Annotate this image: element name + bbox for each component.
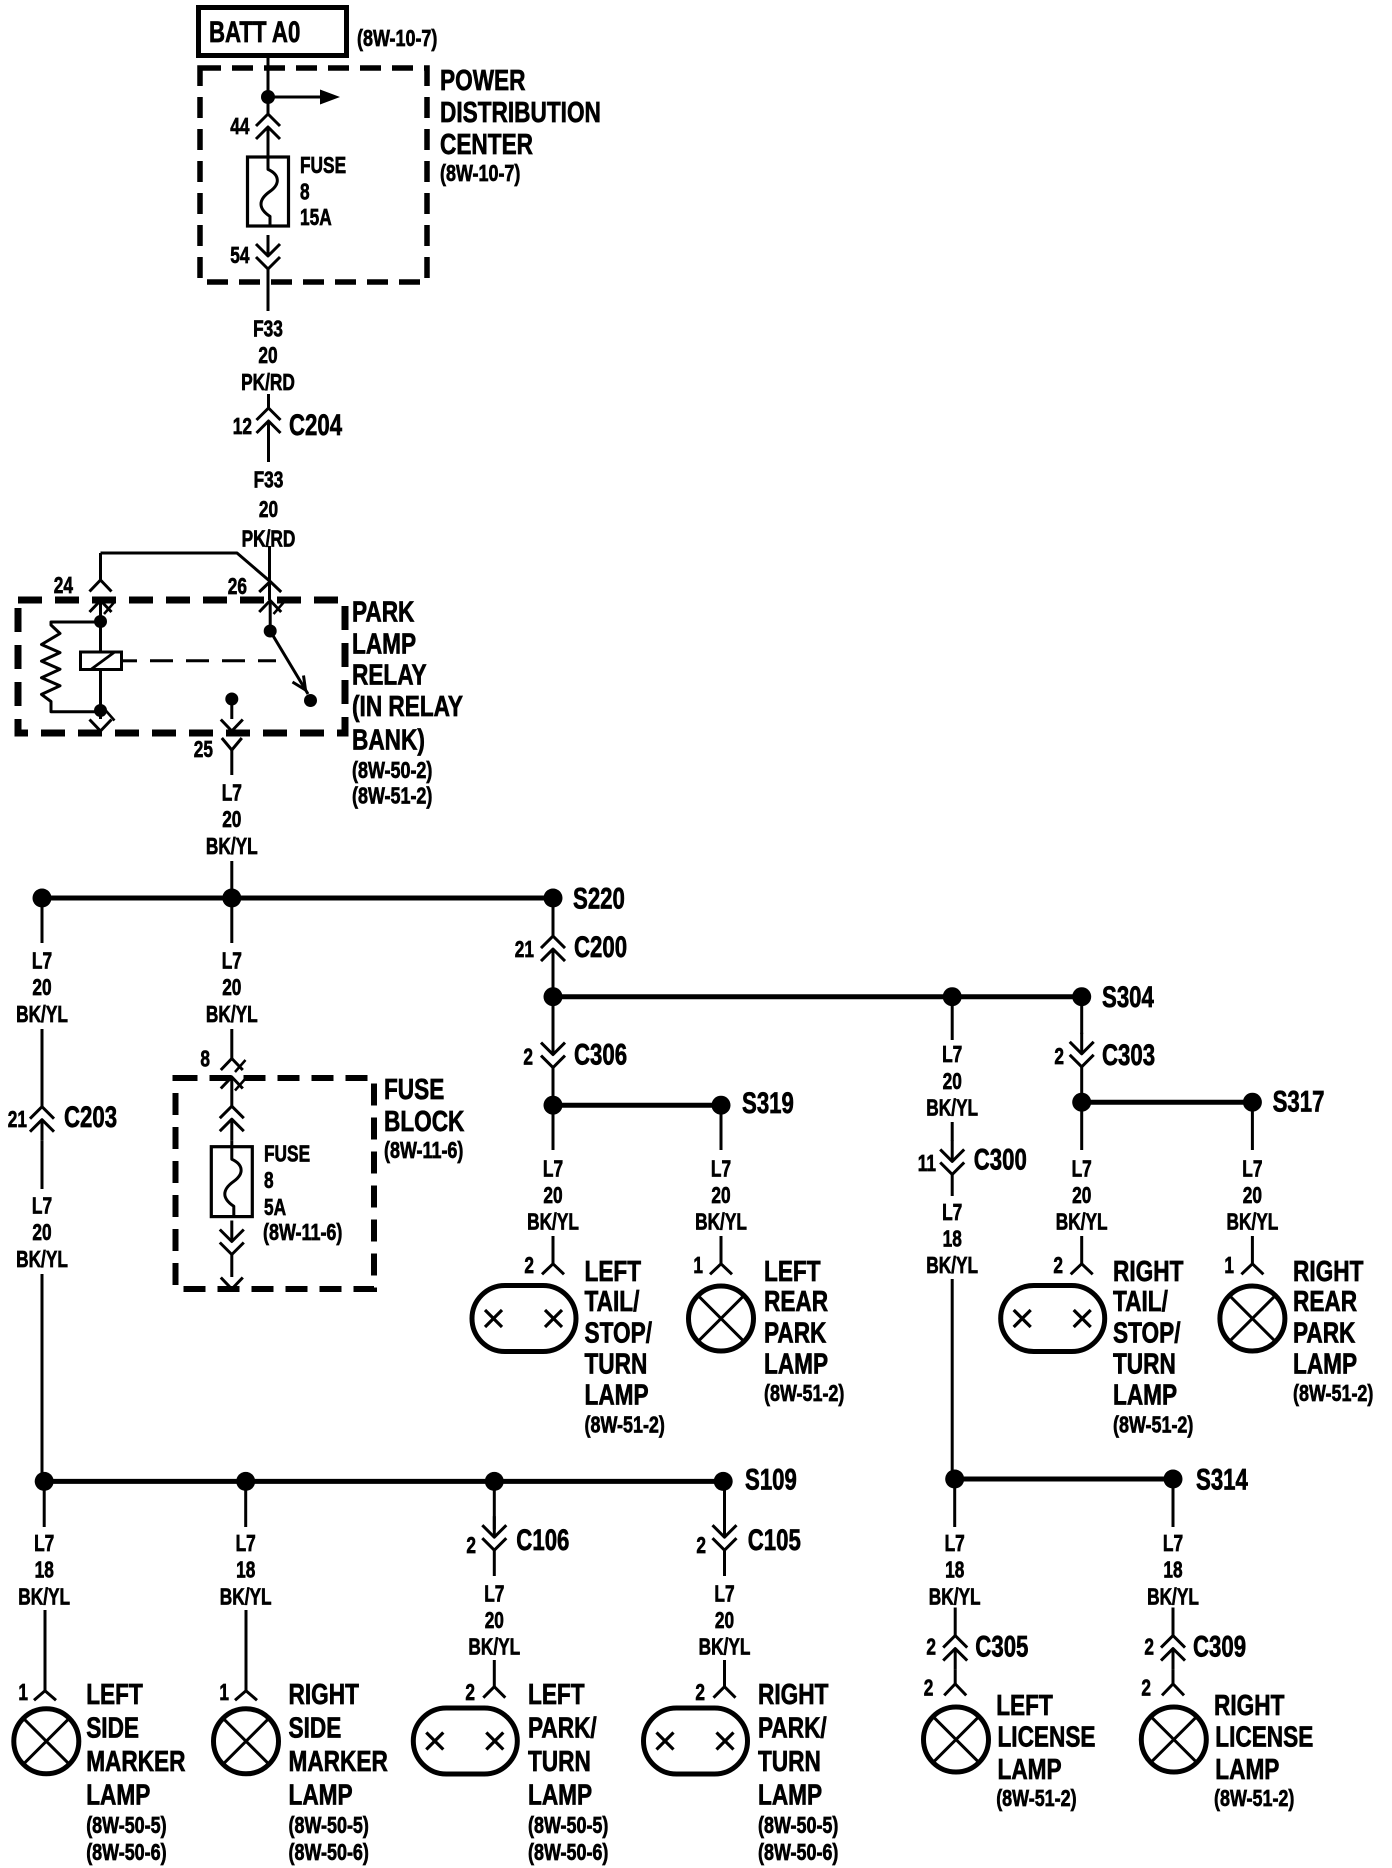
- svg-text:C200: C200: [574, 931, 627, 964]
- svg-text:POWER: POWER: [440, 65, 526, 97]
- svg-text:18: 18: [236, 1557, 255, 1583]
- svg-text:TURN: TURN: [585, 1349, 648, 1381]
- svg-text:20: 20: [1243, 1182, 1262, 1208]
- svg-text:1: 1: [18, 1679, 28, 1705]
- svg-text:(8W-10-7): (8W-10-7): [440, 160, 520, 186]
- svg-text:PARK: PARK: [352, 597, 414, 629]
- svg-text:BK/YL: BK/YL: [16, 1001, 68, 1027]
- svg-text:LAMP: LAMP: [758, 1779, 822, 1811]
- svg-text:FUSE: FUSE: [264, 1140, 310, 1166]
- wire below splice: [552, 1105, 555, 1150]
- svg-text:8: 8: [264, 1167, 274, 1193]
- pin 8 connector half: [221, 1059, 243, 1071]
- lamp RIGHT PARK/TURN: [644, 1708, 748, 1774]
- svg-text:STOP/: STOP/: [1113, 1318, 1181, 1350]
- svg-text:F33: F33: [254, 467, 284, 493]
- pin 8 male arrow inside fuse block: [221, 1077, 243, 1089]
- svg-text:44: 44: [230, 113, 249, 139]
- svg-text:BK/YL: BK/YL: [926, 1252, 978, 1278]
- svg-text:LEFT: LEFT: [86, 1679, 143, 1711]
- svg-text:FUSE: FUSE: [300, 152, 346, 178]
- svg-text:DISTRIBUTION: DISTRIBUTION: [440, 97, 601, 129]
- svg-text:S317: S317: [1273, 1086, 1325, 1119]
- relay shunt resistor: [42, 622, 101, 712]
- svg-text:L7: L7: [222, 780, 242, 806]
- svg-text:BLOCK: BLOCK: [384, 1106, 464, 1138]
- svg-text:TURN: TURN: [758, 1746, 821, 1778]
- svg-text:20: 20: [1072, 1182, 1091, 1208]
- wire below C204: [267, 442, 270, 462]
- svg-text:LAMP: LAMP: [86, 1779, 150, 1811]
- relay coil: [99, 622, 102, 653]
- fuse block internal connector chevrons: [220, 1106, 244, 1118]
- svg-text:(8W-51-2): (8W-51-2): [585, 1412, 665, 1438]
- svg-text:PARK: PARK: [764, 1318, 826, 1350]
- svg-text:18: 18: [35, 1557, 54, 1583]
- wire to splice S304 bus: [552, 970, 555, 997]
- svg-text:12: 12: [233, 413, 252, 439]
- svg-text:S314: S314: [1196, 1463, 1248, 1496]
- svg-text:C203: C203: [64, 1101, 117, 1134]
- svg-text:1: 1: [1224, 1252, 1234, 1278]
- svg-text:L7: L7: [32, 948, 52, 974]
- svg-text:(IN RELAY: (IN RELAY: [352, 691, 463, 723]
- lamp LEFT PARK/TURN: [413, 1708, 517, 1774]
- svg-text:CENTER: CENTER: [440, 129, 533, 161]
- svg-text:RELAY: RELAY: [352, 660, 427, 692]
- wire from S220 to fuse block: [230, 898, 233, 943]
- splice node S220: [544, 889, 563, 908]
- svg-text:(8W-50-5): (8W-50-5): [289, 1812, 369, 1838]
- pin 24 connector half outside relay: [90, 580, 112, 592]
- wire to right tail lamp: [1080, 1236, 1083, 1264]
- wire to left side marker lamp: [44, 1610, 47, 1691]
- splice node C106 branch: [485, 1472, 504, 1491]
- wire to right side marker lamp: [245, 1610, 248, 1691]
- svg-text:TURN: TURN: [1113, 1349, 1176, 1381]
- wire from S317: [1251, 1102, 1254, 1150]
- svg-text:TAIL/: TAIL/: [585, 1286, 640, 1318]
- svg-text:LEFT: LEFT: [585, 1256, 642, 1288]
- lamp LEFT LICENSE: [924, 1707, 989, 1772]
- svg-text:8: 8: [200, 1046, 210, 1072]
- wire to right rear park lamp: [1251, 1236, 1254, 1264]
- power distribution center dashed box: [200, 68, 427, 282]
- wire to left rear park lamp: [720, 1236, 723, 1264]
- wire to splice S317 bus: [1080, 1067, 1083, 1102]
- svg-text:(8W-51-2): (8W-51-2): [996, 1785, 1076, 1811]
- splice node S317: [1243, 1093, 1262, 1112]
- splice node left: [33, 889, 52, 908]
- svg-text:L7: L7: [222, 948, 242, 974]
- svg-text:2: 2: [465, 1679, 475, 1705]
- svg-text:SIDE: SIDE: [86, 1713, 139, 1745]
- svg-text:LAMP: LAMP: [764, 1349, 828, 1381]
- svg-text:BK/YL: BK/YL: [206, 1001, 258, 1027]
- wire to pin 24: [99, 553, 102, 580]
- branch wire to relay pin 24: [101, 553, 271, 582]
- splice node at C306 branch: [544, 987, 563, 1006]
- coil return pin arrow at relay box edge: [99, 711, 102, 720]
- wire below C300: [951, 1174, 954, 1196]
- svg-text:(8W-50-6): (8W-50-6): [86, 1839, 166, 1865]
- svg-text:LAMP: LAMP: [528, 1779, 592, 1811]
- svg-text:BK/YL: BK/YL: [206, 833, 258, 859]
- svg-text:L7: L7: [1242, 1155, 1262, 1181]
- svg-text:STOP/: STOP/: [585, 1318, 653, 1350]
- svg-text:BANK): BANK): [352, 725, 425, 757]
- svg-text:LAMP: LAMP: [352, 629, 416, 661]
- wire from S304 to C303: [1080, 997, 1083, 1034]
- svg-text:11: 11: [918, 1150, 936, 1176]
- wire to left park/turn lamp: [493, 1660, 496, 1687]
- svg-text:BK/YL: BK/YL: [468, 1634, 520, 1660]
- svg-text:2: 2: [1144, 1634, 1154, 1660]
- svg-text:BK/YL: BK/YL: [18, 1583, 70, 1609]
- svg-text:2: 2: [696, 1532, 706, 1558]
- svg-text:BK/YL: BK/YL: [695, 1209, 747, 1235]
- svg-text:L7: L7: [236, 1530, 256, 1556]
- svg-text:(8W-50-5): (8W-50-5): [528, 1812, 608, 1838]
- splice node below C303: [1072, 1093, 1091, 1112]
- svg-text:REAR: REAR: [1293, 1286, 1357, 1318]
- svg-text:BK/YL: BK/YL: [16, 1246, 68, 1272]
- svg-text:L7: L7: [1163, 1530, 1183, 1556]
- svg-text:LICENSE: LICENSE: [1215, 1722, 1313, 1754]
- svg-text:PARK: PARK: [1293, 1318, 1355, 1350]
- svg-text:F33: F33: [253, 316, 283, 342]
- svg-text:TURN: TURN: [528, 1746, 591, 1778]
- lamp RIGHT TAIL/STOP/TURN: [1001, 1286, 1105, 1352]
- svg-text:(8W-51-2): (8W-51-2): [1214, 1785, 1294, 1811]
- svg-text:18: 18: [945, 1557, 964, 1583]
- splice node center: [222, 889, 241, 908]
- fuse 8 (5A): [211, 1147, 252, 1217]
- svg-text:C303: C303: [1102, 1039, 1155, 1072]
- svg-text:L7: L7: [34, 1530, 54, 1556]
- svg-text:BK/YL: BK/YL: [1056, 1209, 1108, 1235]
- svg-text:5A: 5A: [264, 1194, 286, 1220]
- svg-text:18: 18: [943, 1225, 962, 1251]
- fuse block exit arrow: [230, 1255, 233, 1278]
- svg-text:L7: L7: [484, 1580, 504, 1606]
- wire out of PDC: [267, 269, 270, 311]
- svg-text:LEFT: LEFT: [764, 1256, 821, 1288]
- pin 25 connector half below relay: [222, 738, 242, 750]
- fuse output chevrons: [230, 1221, 233, 1242]
- svg-text:L7: L7: [942, 1041, 962, 1067]
- svg-text:(8W-50-6): (8W-50-6): [289, 1839, 369, 1865]
- svg-text:LICENSE: LICENSE: [998, 1722, 1096, 1754]
- svg-text:BK/YL: BK/YL: [1147, 1583, 1199, 1609]
- svg-text:BK/YL: BK/YL: [220, 1583, 272, 1609]
- lamp RIGHT LICENSE: [1141, 1707, 1206, 1772]
- wire to C305: [954, 1608, 957, 1636]
- svg-text:(8W-51-2): (8W-51-2): [352, 783, 432, 809]
- svg-text:2: 2: [924, 1674, 934, 1700]
- lamp LEFT SIDE MARKER: [14, 1709, 79, 1774]
- lamp LEFT REAR PARK: [689, 1286, 754, 1351]
- wire to left tail lamp: [552, 1236, 555, 1264]
- splice S319 bus: [553, 1103, 721, 1108]
- svg-text:2: 2: [1141, 1674, 1151, 1700]
- svg-text:(8W-10-7): (8W-10-7): [357, 25, 437, 51]
- wire to right park/turn lamp: [723, 1660, 726, 1687]
- wire from S314: [953, 1479, 956, 1527]
- svg-text:L7: L7: [32, 1193, 52, 1219]
- svg-text:L7: L7: [711, 1155, 731, 1181]
- wire from S304 bus to C300: [951, 997, 954, 1040]
- svg-text:21: 21: [8, 1106, 27, 1132]
- svg-text:L7: L7: [714, 1580, 734, 1606]
- svg-text:BK/YL: BK/YL: [1227, 1209, 1279, 1235]
- svg-text:LEFT: LEFT: [996, 1690, 1053, 1722]
- wire from S109 to C106: [493, 1481, 496, 1529]
- splice node S314: [1164, 1470, 1183, 1489]
- wire to fuse block pin 8: [230, 1029, 233, 1059]
- wire down to relay branch: [268, 546, 271, 600]
- svg-text:S220: S220: [573, 883, 625, 916]
- svg-text:20: 20: [711, 1182, 730, 1208]
- svg-text:2: 2: [1054, 1043, 1064, 1069]
- svg-text:25: 25: [194, 736, 213, 762]
- svg-text:RIGHT: RIGHT: [1293, 1256, 1364, 1288]
- svg-text:20: 20: [485, 1607, 504, 1633]
- svg-text:20: 20: [222, 806, 241, 832]
- connector pin 44 chevrons: [267, 97, 270, 114]
- wire to splice S220: [230, 861, 233, 898]
- svg-text:LAMP: LAMP: [1113, 1380, 1177, 1412]
- svg-text:BK/YL: BK/YL: [699, 1634, 751, 1660]
- relay coil bottom node: [94, 704, 107, 717]
- svg-text:20: 20: [259, 496, 278, 522]
- svg-text:L7: L7: [1072, 1155, 1092, 1181]
- wire below C106: [493, 1550, 496, 1576]
- svg-text:(8W-51-2): (8W-51-2): [1293, 1380, 1373, 1406]
- splice node left license: [945, 1470, 964, 1489]
- svg-text:S109: S109: [745, 1464, 797, 1497]
- wire from S109: [244, 1481, 247, 1527]
- svg-text:2: 2: [524, 1252, 534, 1278]
- svg-text:1: 1: [219, 1679, 229, 1705]
- wire from S319: [720, 1105, 723, 1150]
- svg-text:S304: S304: [1102, 981, 1154, 1014]
- svg-text:26: 26: [228, 573, 247, 599]
- svg-text:24: 24: [54, 572, 73, 598]
- svg-text:15A: 15A: [300, 204, 332, 230]
- fuse block dashed box: [176, 1078, 375, 1289]
- svg-text:LEFT: LEFT: [528, 1679, 585, 1711]
- svg-text:MARKER: MARKER: [86, 1746, 185, 1778]
- wire from S314 to C309: [1172, 1479, 1175, 1527]
- svg-text:C306: C306: [574, 1039, 627, 1072]
- svg-text:8: 8: [300, 179, 310, 205]
- svg-text:S319: S319: [742, 1087, 794, 1120]
- park lamp relay dashed box: [18, 600, 345, 733]
- svg-text:FUSE: FUSE: [384, 1074, 444, 1106]
- svg-text:L7: L7: [945, 1530, 965, 1556]
- svg-text:20: 20: [943, 1068, 962, 1094]
- wire to C300: [951, 1122, 954, 1141]
- svg-text:C105: C105: [748, 1524, 801, 1557]
- connector pin 54 chevrons: [267, 235, 270, 256]
- wire to C309: [1172, 1608, 1175, 1636]
- wire from S109 to C105: [723, 1481, 726, 1529]
- wire from S220 to C200: [552, 898, 555, 936]
- svg-text:(8W-11-6): (8W-11-6): [384, 1137, 463, 1163]
- lamp LEFT TAIL/STOP/TURN: [472, 1286, 576, 1352]
- svg-text:(8W-51-2): (8W-51-2): [764, 1380, 844, 1406]
- wire into fuse 8 (5A): [230, 1140, 233, 1147]
- coil to switch dashed link: [122, 659, 138, 662]
- fuse 8 (15A) in PDC: [248, 157, 289, 226]
- splice S220 bus: [42, 896, 553, 901]
- svg-text:RIGHT: RIGHT: [1214, 1690, 1285, 1722]
- svg-text:BK/YL: BK/YL: [926, 1094, 978, 1120]
- svg-text:L7: L7: [942, 1199, 962, 1225]
- switch common node: [264, 625, 277, 638]
- svg-text:C204: C204: [289, 409, 342, 442]
- splice node S319: [712, 1096, 731, 1115]
- svg-text:TAIL/: TAIL/: [1113, 1286, 1168, 1318]
- svg-text:LAMP: LAMP: [1215, 1754, 1279, 1786]
- wire below C203: [41, 1141, 44, 1189]
- wire from S220 left branch: [41, 898, 44, 943]
- svg-text:BK/YL: BK/YL: [527, 1209, 579, 1235]
- svg-text:REAR: REAR: [764, 1286, 828, 1318]
- svg-text:LAMP: LAMP: [585, 1380, 649, 1412]
- wire to C203: [41, 1029, 44, 1107]
- wire to splice S319 bus: [552, 1068, 555, 1106]
- wire from relay pin 25: [230, 764, 233, 775]
- svg-text:2: 2: [1053, 1252, 1063, 1278]
- svg-text:21: 21: [515, 936, 534, 962]
- pin 26 connector half outside relay: [259, 582, 281, 593]
- battery feed box BATT A0: [199, 8, 347, 56]
- splice node below C306: [544, 1096, 563, 1115]
- svg-text:PARK/: PARK/: [528, 1713, 597, 1745]
- svg-text:RIGHT: RIGHT: [289, 1679, 360, 1711]
- svg-text:BATT A0: BATT A0: [209, 16, 300, 49]
- svg-text:(8W-11-6): (8W-11-6): [263, 1219, 342, 1245]
- splice S304 bus: [553, 994, 1082, 999]
- svg-text:20: 20: [543, 1182, 562, 1208]
- relay coil top node: [94, 615, 107, 628]
- splice node S109: [714, 1472, 733, 1491]
- arrow feed to other circuits: [268, 96, 322, 99]
- svg-text:20: 20: [32, 1219, 51, 1245]
- svg-text:SIDE: SIDE: [289, 1713, 342, 1745]
- svg-text:LAMP: LAMP: [1293, 1349, 1357, 1381]
- splice S109 bus: [44, 1479, 723, 1484]
- svg-text:C106: C106: [516, 1524, 569, 1557]
- svg-text:RIGHT: RIGHT: [758, 1679, 829, 1711]
- wire down to splice S109: [41, 1274, 44, 1481]
- svg-text:(8W-50-6): (8W-50-6): [528, 1839, 608, 1865]
- wire from BATT A0 into PDC: [267, 56, 270, 97]
- svg-text:(8W-50-2): (8W-50-2): [352, 757, 432, 783]
- svg-text:20: 20: [32, 974, 51, 1000]
- svg-text:C305: C305: [975, 1630, 1028, 1663]
- splice node left marker: [35, 1472, 54, 1491]
- lamp RIGHT REAR PARK: [1220, 1286, 1285, 1351]
- pin 26 male arrow inside relay: [259, 601, 281, 613]
- svg-text:(8W-50-5): (8W-50-5): [758, 1812, 838, 1838]
- pin 24 male arrow inside relay: [90, 601, 112, 613]
- wire below splice: [1080, 1102, 1083, 1150]
- junction node in PDC: [261, 90, 275, 104]
- splice S317 bus: [1082, 1100, 1253, 1105]
- svg-text:BK/YL: BK/YL: [929, 1583, 981, 1609]
- svg-text:2: 2: [466, 1532, 476, 1558]
- switch contact node: [304, 694, 317, 707]
- svg-text:20: 20: [715, 1607, 734, 1633]
- wire to C306: [552, 997, 555, 1044]
- wire to C204: [267, 394, 270, 408]
- relay output node pin 25: [225, 693, 238, 706]
- svg-text:(8W-50-6): (8W-50-6): [758, 1839, 838, 1865]
- splice node on S304 bus: [943, 987, 962, 1006]
- svg-text:20: 20: [222, 974, 241, 1000]
- svg-text:LAMP: LAMP: [289, 1779, 353, 1811]
- svg-text:(8W-50-5): (8W-50-5): [86, 1812, 166, 1838]
- svg-text:2: 2: [695, 1679, 705, 1705]
- wire down to splice S314: [951, 1279, 954, 1479]
- wire from S109: [43, 1481, 46, 1527]
- svg-text:PK/RD: PK/RD: [241, 369, 295, 395]
- relay switch arm: [270, 631, 308, 694]
- splice node S304: [1072, 987, 1091, 1006]
- svg-text:2: 2: [926, 1634, 936, 1660]
- wire below C105: [723, 1550, 726, 1576]
- lamp RIGHT SIDE MARKER: [214, 1709, 279, 1774]
- svg-text:RIGHT: RIGHT: [1113, 1256, 1184, 1288]
- svg-text:C309: C309: [1193, 1630, 1246, 1663]
- svg-text:C300: C300: [974, 1143, 1027, 1176]
- wire into fuse 8: [267, 148, 270, 157]
- svg-text:PARK/: PARK/: [758, 1713, 827, 1745]
- svg-text:2: 2: [523, 1044, 533, 1070]
- svg-text:1: 1: [693, 1252, 703, 1278]
- svg-text:54: 54: [230, 242, 249, 268]
- svg-text:18: 18: [1163, 1557, 1182, 1583]
- svg-text:LAMP: LAMP: [998, 1754, 1062, 1786]
- splice S314 bus: [955, 1477, 1173, 1482]
- splice node right marker: [236, 1472, 255, 1491]
- svg-text:(8W-51-2): (8W-51-2): [1113, 1412, 1193, 1438]
- svg-text:20: 20: [258, 342, 277, 368]
- svg-text:MARKER: MARKER: [289, 1746, 388, 1778]
- svg-text:L7: L7: [543, 1155, 563, 1181]
